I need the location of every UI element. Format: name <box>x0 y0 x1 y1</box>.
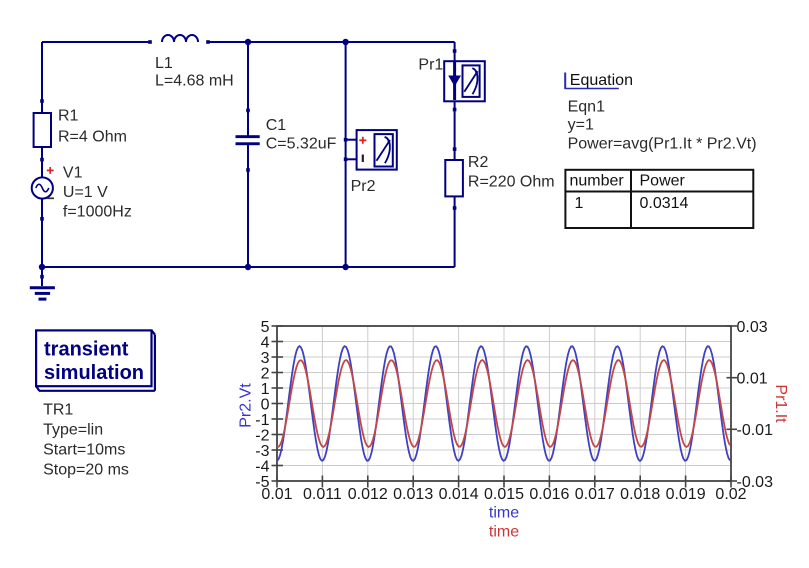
svg-text:1: 1 <box>575 195 584 212</box>
junction node dots <box>39 39 349 270</box>
svg-text:transient: transient <box>44 339 129 361</box>
plot right ticks <box>727 326 738 481</box>
svg-text:Pr1.It: Pr1.It <box>772 384 789 423</box>
svg-text:-1: -1 <box>255 412 269 429</box>
svg-text:time: time <box>489 524 519 541</box>
curve Pr2.Vt (blue) <box>277 346 730 461</box>
label V1 <box>63 165 132 221</box>
svg-text:0.018: 0.018 <box>620 486 660 503</box>
svg-text:0.01: 0.01 <box>261 486 292 503</box>
svg-text:Power: Power <box>640 172 686 189</box>
svg-text:Type=lin: Type=lin <box>43 422 103 439</box>
capacitor C1 <box>236 135 260 145</box>
svg-text:Pr2.Vt: Pr2.Vt <box>238 383 255 428</box>
svg-text:1: 1 <box>261 381 270 398</box>
wire R1 to V1 <box>41 147 43 178</box>
svg-text:Stop=20 ms: Stop=20 ms <box>43 461 129 478</box>
label TR1 <box>43 402 129 479</box>
equation body text <box>568 99 757 153</box>
svg-text:Pr2: Pr2 <box>351 178 376 195</box>
equation heading underline <box>564 73 618 89</box>
probe Pr2 (voltmeter) <box>346 130 397 170</box>
wire bottom rail <box>42 266 455 268</box>
transient simulation title <box>44 339 144 385</box>
svg-text:0.012: 0.012 <box>348 486 388 503</box>
right axis numbers <box>737 319 774 491</box>
svg-text:0.02: 0.02 <box>715 486 746 503</box>
transient simulation box <box>36 330 155 390</box>
plot left ticks <box>272 326 284 481</box>
svg-text:U=1 V: U=1 V <box>63 184 108 201</box>
wire top-right horizontal <box>208 41 455 43</box>
svg-text:R=220 Ohm: R=220 Ohm <box>468 174 555 191</box>
svg-text:L1: L1 <box>155 55 173 72</box>
label R2 <box>468 154 555 191</box>
terminal pin squares <box>40 40 456 278</box>
svg-text:R=4 Ohm: R=4 Ohm <box>58 129 127 146</box>
wire C1 branch upper <box>247 42 249 136</box>
svg-text:0.014: 0.014 <box>439 486 479 503</box>
wire Pr1 to R2 <box>454 101 456 160</box>
svg-text:0.017: 0.017 <box>575 486 615 503</box>
wire C1 branch lower <box>247 145 249 267</box>
svg-text:0.03: 0.03 <box>737 319 768 336</box>
wire V1 to bottom rail <box>41 199 43 268</box>
plot bottom ticks <box>277 476 731 488</box>
label L1 <box>155 55 234 90</box>
equation Eqn1 heading <box>570 72 633 89</box>
label C1 <box>266 117 337 152</box>
svg-text:-2: -2 <box>255 427 269 444</box>
svg-text:0.01: 0.01 <box>737 371 768 388</box>
Pr2 plus sign <box>359 137 366 144</box>
V1 minus sign <box>47 197 54 199</box>
left axis numbers <box>255 319 269 491</box>
plot frame <box>277 326 731 481</box>
svg-text:-4: -4 <box>255 458 269 475</box>
svg-text:0.019: 0.019 <box>666 486 706 503</box>
svg-text:TR1: TR1 <box>43 402 73 419</box>
label Pr2 <box>351 178 376 195</box>
resistor R2 <box>445 160 463 196</box>
plot gridlines <box>277 326 731 481</box>
V1 plus sign <box>47 167 54 174</box>
svg-text:R1: R1 <box>58 107 79 124</box>
svg-text:0.016: 0.016 <box>529 486 569 503</box>
curve Pr1.It (red) <box>277 360 730 447</box>
svg-text:simulation: simulation <box>44 362 144 384</box>
Pr1 arrow head <box>448 76 461 87</box>
source V1 <box>32 177 53 198</box>
svg-text:-3: -3 <box>255 443 269 460</box>
svg-text:0.013: 0.013 <box>393 486 433 503</box>
Pr2 minus bar <box>362 155 364 163</box>
axis label Pr2.Vt <box>238 383 255 428</box>
svg-text:Equation: Equation <box>570 72 633 89</box>
svg-text:2: 2 <box>261 365 270 382</box>
svg-text:L=4.68 mH: L=4.68 mH <box>155 73 234 90</box>
x axis numbers <box>261 486 746 503</box>
axis label time (red) <box>489 524 519 541</box>
svg-text:0: 0 <box>261 396 270 413</box>
label R1 <box>58 107 127 145</box>
result table frame <box>565 170 753 228</box>
svg-text:Pr1: Pr1 <box>418 57 443 74</box>
wire top-left horizontal <box>42 41 150 43</box>
wire right branch upper <box>454 42 456 61</box>
label Pr1 <box>418 57 443 74</box>
svg-text:4: 4 <box>261 334 270 351</box>
axis label time (blue) <box>489 505 519 522</box>
svg-text:0.0314: 0.0314 <box>640 195 689 212</box>
svg-text:Eqn1: Eqn1 <box>568 99 605 116</box>
wire Pr2 branch <box>345 42 347 267</box>
resistor R1 <box>34 113 51 147</box>
svg-text:0.011: 0.011 <box>303 486 342 503</box>
svg-text:f=1000Hz: f=1000Hz <box>63 204 132 221</box>
svg-text:0.015: 0.015 <box>484 486 524 503</box>
svg-text:y=1: y=1 <box>568 117 594 134</box>
svg-text:5: 5 <box>261 319 270 336</box>
probe Pr1 (ammeter) <box>444 61 485 101</box>
svg-text:C=5.32uF: C=5.32uF <box>266 135 337 152</box>
svg-text:R2: R2 <box>468 154 489 171</box>
svg-text:Start=10ms: Start=10ms <box>43 442 125 459</box>
svg-text:V1: V1 <box>63 165 83 182</box>
table text <box>570 172 689 212</box>
svg-text:-0.01: -0.01 <box>737 422 774 439</box>
svg-text:3: 3 <box>261 350 270 367</box>
inductor L1 <box>162 35 198 42</box>
axis label Pr1.It <box>772 384 789 423</box>
svg-text:C1: C1 <box>266 117 287 134</box>
wire left vertical (source branch) <box>41 42 43 113</box>
svg-text:Power=avg(Pr1.It * Pr2.Vt): Power=avg(Pr1.It * Pr2.Vt) <box>568 135 757 152</box>
wire R2 to bottom rail <box>454 196 456 267</box>
svg-text:time: time <box>489 505 519 522</box>
svg-text:number: number <box>570 172 625 189</box>
ground symbol <box>30 267 55 299</box>
